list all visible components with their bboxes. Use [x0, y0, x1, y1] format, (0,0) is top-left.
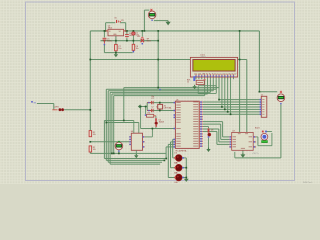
junction — [239, 59, 241, 61]
wire pot loop bottom — [198, 92, 216, 94]
LCD module LCD1 — [190, 57, 237, 77]
wire MCU RB to LED col 2 — [172, 138, 175, 140]
svg-text:BUZ1: BUZ1 — [255, 127, 260, 129]
ground — [114, 53, 118, 58]
wire R3 to D2 — [155, 116, 157, 118]
wire LCD column — [209, 79, 211, 92]
wire — [133, 121, 135, 134]
svg-text:LS1: LS1 — [137, 36, 140, 38]
pin mark — [133, 51, 135, 53]
svg-text:D5: D5 — [175, 172, 177, 174]
junction — [126, 30, 128, 32]
junction — [133, 40, 135, 42]
junction — [126, 40, 128, 42]
pin mark — [145, 114, 147, 116]
wire pot loop top — [198, 85, 216, 87]
wire LCD pin stub — [215, 77, 217, 79]
junction — [118, 153, 120, 155]
wire OSC1 — [147, 102, 173, 104]
wire +5V down to U3 pin — [239, 31, 241, 132]
svg-text:B1: B1 — [115, 17, 117, 19]
junction — [157, 30, 159, 32]
wire to RV2 — [141, 31, 143, 37]
wire to C5 — [103, 31, 105, 38]
pin mark — [148, 110, 149, 111]
junction — [118, 141, 120, 143]
wire bus line 4 — [110, 91, 210, 93]
wire bottom ground rail — [235, 157, 281, 159]
wire down — [140, 107, 142, 129]
wire LCD D5 drop to bus — [224, 77, 226, 110]
diode D2 — [155, 118, 158, 127]
junction — [115, 52, 117, 54]
pot wiper blue mark — [193, 76, 195, 81]
svg-text:LDR1: LDR1 — [54, 107, 59, 109]
red mark — [204, 79, 206, 80]
svg-text:C1: C1 — [151, 98, 153, 100]
wire — [217, 143, 229, 145]
ground — [206, 148, 210, 152]
J1 inner pin numbers — [262, 99, 264, 115]
wire — [208, 127, 210, 129]
wire crystal top — [159, 103, 161, 105]
svg-text:LM016L: LM016L — [200, 56, 206, 58]
junction — [125, 30, 127, 32]
wire — [105, 23, 107, 31]
wire — [167, 144, 169, 177]
ground — [134, 154, 138, 158]
wire MCU to U3 3 — [203, 128, 219, 130]
wire LCD pin stub — [221, 77, 223, 79]
wire MCU RB to LED col 3 — [171, 141, 174, 143]
svg-text:CRYSTAL: CRYSTAL — [164, 107, 172, 110]
wire MCU to U3 2 — [203, 123, 221, 125]
wire LDR to divider — [64, 109, 90, 111]
junction — [185, 167, 187, 169]
wire ground rail — [101, 40, 159, 42]
wire to opamp top 2 — [106, 122, 139, 124]
svg-text:PIC16F877A: PIC16F877A — [175, 149, 187, 152]
wire MCU to J1 line 4 — [203, 106, 260, 108]
junction — [115, 40, 117, 42]
wire LED ground column — [185, 158, 187, 179]
junction — [227, 111, 229, 113]
svg-text:1N4148: 1N4148 — [159, 121, 164, 123]
pin mark — [208, 136, 210, 138]
capacitor C2 — [147, 109, 153, 112]
wire battery top right — [120, 22, 126, 24]
wire — [219, 141, 229, 143]
wire U3 pin stub — [253, 146, 256, 148]
wire — [123, 88, 125, 121]
LED D4 — [174, 164, 184, 171]
terminal plus VM2 — [280, 91, 282, 93]
wire — [163, 159, 165, 161]
U3 right pin stubs — [253, 136, 256, 147]
svg-text:1k: 1k — [187, 82, 189, 84]
op-amp U4 LM358 — [131, 133, 142, 150]
wire LCD pin stub — [204, 77, 206, 79]
junction — [157, 40, 159, 42]
wire LED1 cathode — [183, 157, 187, 159]
wire — [216, 131, 218, 144]
voltmeter VM2 — [277, 94, 285, 102]
IC U3 — [232, 132, 254, 150]
junction — [157, 59, 159, 61]
wire LCD pin stub — [195, 77, 197, 79]
wire LCD pin stub — [212, 77, 214, 79]
terminal plus VM1 — [150, 9, 152, 11]
U3 left pin stubs — [229, 136, 232, 147]
junction — [133, 30, 135, 32]
wire LCD pin stub — [201, 77, 203, 79]
terminal plus VM3 — [118, 141, 120, 143]
wire divider tap to U2:A input — [90, 141, 129, 143]
svg-text:10u: 10u — [136, 48, 139, 50]
opamp right pin stubs — [143, 136, 145, 147]
svg-text:<TEXT>: <TEXT> — [252, 152, 260, 155]
wire bundle bottom 2 — [106, 159, 164, 161]
wire ground return long — [90, 152, 166, 154]
wire to D5 — [203, 126, 209, 128]
wire MCU to J1 line 5 — [203, 108, 260, 110]
wire MCU to J1 line 6 — [203, 111, 260, 113]
terminal minus VM2 — [280, 103, 281, 104]
wire VM3 minus — [118, 150, 120, 153]
wire to R3 — [145, 107, 147, 115]
junction — [152, 128, 154, 130]
svg-text:D6: D6 — [211, 129, 213, 131]
wire to C7 — [115, 41, 117, 45]
junction — [111, 153, 113, 155]
wire left vertical from rail to divider — [89, 31, 91, 131]
svg-text:22p: 22p — [151, 96, 154, 98]
junction — [89, 59, 91, 61]
capacitor C8 — [132, 44, 135, 50]
potentiometer RV1 — [196, 80, 204, 84]
wire LCD pin stub — [218, 77, 220, 79]
regulator U2 7805 — [108, 29, 124, 36]
wire VM2 minus down — [280, 104, 282, 158]
wire bus line 6 — [114, 95, 205, 97]
wire LCD pin stub — [232, 77, 234, 79]
wire — [138, 123, 140, 134]
wire LCD pin stub — [224, 77, 226, 79]
junction — [164, 160, 166, 162]
wire bundle vertical 6 — [113, 96, 115, 154]
junction — [230, 113, 232, 115]
wire MCU to J1 line 7 — [203, 113, 260, 115]
capacitor C7 — [115, 44, 118, 50]
junction — [140, 106, 142, 108]
wire — [167, 21, 169, 22]
resistor R3 — [147, 114, 154, 117]
wire bundle vertical 4 — [109, 92, 111, 164]
wire to D1 — [132, 30, 134, 33]
pin mark C5 minus — [104, 44, 106, 46]
svg-text:D4: D4 — [175, 163, 177, 165]
capacitor C6 — [125, 35, 129, 37]
wire — [222, 122, 224, 137]
junction — [123, 120, 125, 122]
voltmeter VM1 — [148, 11, 156, 19]
svg-text:8ohm: 8ohm — [147, 41, 152, 43]
wire LED3 cathode — [183, 177, 187, 179]
ground — [184, 177, 189, 182]
wire bundle bottom 3 — [108, 161, 162, 163]
wire sounder loop bottom — [258, 145, 272, 147]
wire LCD RS column — [212, 79, 214, 91]
resistor R2 — [89, 146, 92, 152]
wire U3 left-bottom to gnd rail — [234, 152, 236, 158]
wire bundle vertical 3 — [107, 91, 109, 163]
wire bundle bottom 1 — [104, 158, 166, 160]
wire — [53, 104, 55, 110]
sounder green label — [261, 140, 267, 143]
MCU right pin stubs — [199, 101, 203, 147]
wire — [220, 124, 222, 139]
pin mark — [142, 43, 144, 45]
junction — [105, 30, 107, 32]
wire bundle bottom 4 — [110, 163, 160, 165]
resistor R1 — [89, 131, 92, 137]
pin stub U2 VO — [124, 30, 127, 32]
wire to U3 second top pin — [246, 60, 248, 133]
wire D5 cathode — [208, 138, 210, 149]
wire bundle vertical 2 — [105, 89, 107, 160]
capacitor C1 — [147, 101, 153, 104]
LED D5 — [174, 174, 184, 181]
junction — [113, 153, 115, 155]
wire from LDR label — [37, 103, 54, 105]
wire C5 bottom — [103, 45, 105, 53]
LED D5 — [208, 128, 211, 136]
wire C6 bottom — [126, 38, 128, 41]
terminal minus VM1 — [151, 20, 152, 21]
wire bus line 2 — [106, 88, 216, 90]
wire U3 VSS — [242, 150, 244, 154]
voltmeter VM3 — [115, 142, 123, 150]
wire LCD E column — [218, 79, 220, 87]
wire right rail down — [258, 31, 260, 92]
label input text — [31, 101, 36, 104]
battery B1 — [117, 20, 121, 23]
sounder BUZ1 — [261, 131, 268, 141]
wire bus line 3 — [108, 90, 213, 92]
wire to voltmeter VM2 — [259, 91, 277, 93]
junction — [141, 30, 143, 32]
svg-text:10k: 10k — [93, 149, 96, 151]
svg-text:TR: TR — [33, 102, 36, 104]
wire LED3 anode — [168, 177, 175, 179]
wire VM1 drop — [143, 10, 145, 31]
ground left arrow — [138, 104, 141, 108]
wire LCD pin stub — [209, 77, 211, 79]
ground — [240, 153, 245, 158]
junction — [89, 109, 91, 111]
preset RV2 — [141, 37, 145, 42]
wire MCU to J1 line 3 — [203, 104, 260, 106]
opamp left pin stubs — [129, 136, 131, 145]
wire LCD RW column — [215, 79, 217, 89]
svg-text:10k: 10k — [93, 134, 96, 136]
wire to opamp top — [104, 120, 133, 122]
ground — [192, 85, 196, 89]
wire — [221, 138, 230, 140]
wire crystal bottom — [159, 109, 161, 111]
wire LCD pin stub — [198, 77, 200, 79]
wire VM3 plus — [118, 141, 120, 144]
pin mark on bus — [159, 89, 160, 90]
wire to VM1 plus — [144, 9, 149, 11]
sensor LDR1 — [52, 108, 64, 111]
wire +5V drop to LCD feed — [157, 31, 159, 88]
wire sounder loop left — [257, 137, 259, 146]
wire pot loop right — [215, 86, 217, 94]
junction — [105, 122, 107, 124]
microcontroller U1 PIC16F877A — [175, 101, 199, 148]
wire LED1 anode — [173, 157, 175, 159]
wire LCD pin stub — [227, 77, 229, 79]
LED D3 — [174, 155, 184, 162]
wire LED2 anode — [171, 167, 175, 169]
junction — [159, 110, 161, 112]
svg-text:ISIS Prof...: ISIS Prof... — [303, 181, 313, 184]
wire LCD column — [204, 79, 206, 95]
wire — [218, 129, 220, 142]
wire caps common — [146, 103, 148, 111]
junction — [89, 141, 91, 143]
wire U3 pin stub — [253, 141, 256, 143]
wire opamp output — [145, 136, 153, 138]
crystal X1 — [158, 104, 163, 109]
junction — [259, 91, 261, 93]
svg-text:10u: 10u — [118, 48, 121, 50]
junction — [144, 30, 146, 32]
wire — [165, 147, 167, 159]
junction — [239, 30, 241, 32]
wire sounder loop right — [271, 133, 273, 146]
svg-text:100n: 100n — [129, 35, 133, 37]
wire LCD pin stub — [207, 77, 209, 79]
wire U2 GND pin — [115, 36, 117, 41]
svg-text:D3: D3 — [175, 153, 177, 155]
wire bundle vertical 1 — [103, 121, 105, 159]
wire gnd link — [104, 52, 132, 54]
junction — [159, 102, 161, 104]
MCU left pin stubs — [174, 102, 176, 148]
terminal minus VM3 — [118, 150, 119, 151]
junction — [165, 158, 167, 160]
wire OSC2 — [147, 110, 173, 112]
wire mid rail y59.5 — [90, 59, 239, 61]
junction — [218, 99, 220, 101]
wire bundle vertical 5 — [111, 94, 113, 153]
wire — [172, 139, 174, 158]
pin stub U2 VI — [106, 30, 108, 32]
capacitor C5 — [103, 38, 107, 43]
junction — [185, 177, 187, 179]
wire MCU RB to LED col 5 — [166, 146, 173, 148]
junction — [145, 106, 147, 108]
wire R2 bottom — [89, 152, 91, 154]
wire caps to ground — [140, 106, 147, 108]
wire LED2 cathode — [183, 167, 187, 169]
wire +12V/+5V rail — [90, 30, 259, 32]
J1 pin marks — [260, 99, 262, 115]
wire MCU to U3 4 — [203, 130, 217, 132]
junction — [224, 109, 226, 111]
wire branch — [240, 59, 247, 61]
wire to C8 — [132, 41, 134, 45]
wire to MCU RA pin — [141, 128, 174, 130]
svg-text:C2: C2 — [151, 106, 153, 108]
MCU pin name rows left — [176, 102, 180, 146]
wire — [115, 51, 117, 53]
svg-text:D2: D2 — [159, 119, 161, 121]
wire battery top left — [106, 22, 116, 24]
wire MCU to J1 line 2 — [203, 101, 260, 103]
wire — [132, 50, 134, 52]
pin mark — [148, 102, 149, 103]
wire — [170, 142, 172, 168]
wire LCD D3 drop — [218, 77, 220, 100]
wire U3 to sounder — [253, 136, 258, 138]
junction — [221, 106, 223, 108]
background grid — [0, 0, 320, 184]
wire MCU to U3 1 — [203, 121, 223, 123]
wire LCD D6 drop to bus — [227, 77, 229, 112]
wire — [266, 131, 272, 133]
wire LCD D7 drop to bus — [230, 77, 232, 114]
wire — [155, 127, 157, 129]
sheet border frame — [26, 2, 295, 181]
wire — [125, 23, 127, 31]
wire — [223, 136, 230, 138]
wire bus line 1 — [124, 87, 219, 89]
svg-text:1000u: 1000u — [107, 41, 112, 43]
wire D1 bottom — [132, 35, 134, 41]
ground power arrow — [166, 21, 171, 25]
junction — [104, 30, 106, 32]
diode D1 — [132, 32, 135, 35]
wire branch to opamp out — [151, 129, 153, 137]
junction — [104, 40, 106, 42]
wire LCD D4 drop to bus — [221, 77, 223, 107]
wire LCD column — [207, 79, 209, 94]
LCD pins — [195, 74, 234, 77]
MCU pin name rows right — [193, 102, 198, 147]
wire opamp vss — [135, 150, 137, 154]
junction — [157, 87, 159, 89]
wire bus line 5 — [112, 93, 208, 95]
wire to J1 line 1 — [219, 99, 260, 101]
pin stub — [154, 115, 156, 117]
wire VM1 minus — [154, 20, 168, 22]
wire MCU RB to LED col 4 — [168, 143, 173, 145]
svg-text:R3: R3 — [148, 112, 150, 114]
connector J1 — [261, 96, 267, 117]
wire pot loop left — [197, 86, 199, 94]
wire to C6 — [126, 31, 128, 34]
wire LCD pin stub — [230, 77, 232, 79]
U3 inner pin text — [233, 133, 252, 148]
